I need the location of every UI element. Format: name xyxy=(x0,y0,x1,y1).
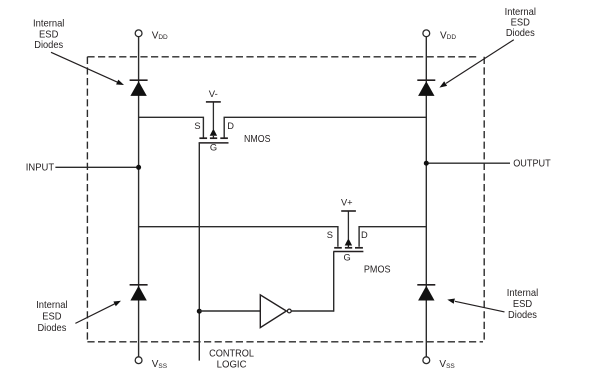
svg-text:Internal: Internal xyxy=(36,299,67,311)
wire: INPUT lead xyxy=(55,166,138,168)
svg-text:D: D xyxy=(227,121,234,131)
svg-text:G: G xyxy=(210,143,217,153)
arrow top-right xyxy=(439,40,513,88)
svg-text:NMOS: NMOS xyxy=(244,133,271,145)
wire: PMOS source from left rail xyxy=(139,227,338,247)
source contact tick xyxy=(199,137,207,139)
svg-text:INPUT: INPUT xyxy=(26,161,55,173)
svg-text:LOGIC: LOGIC xyxy=(217,359,247,371)
V- terminal bar xyxy=(206,101,221,103)
wire: right VDD/VSS rail xyxy=(425,37,427,357)
svg-text:PMOS: PMOS xyxy=(364,263,391,275)
ESD diode bottom-left xyxy=(130,285,148,301)
dashed IC boundary top edge xyxy=(87,56,478,58)
svg-text:D: D xyxy=(361,230,368,240)
annotation: Internal ESD Diodes top-right xyxy=(505,6,536,39)
terminal VSS right xyxy=(423,357,430,364)
source contact tick xyxy=(334,247,342,249)
drain contact tick xyxy=(220,137,228,139)
node: inverter input junction dot xyxy=(197,309,202,314)
svg-text:Diodes: Diodes xyxy=(506,27,535,39)
svg-text:S: S xyxy=(194,121,200,131)
gate plate xyxy=(333,251,363,253)
node: OUTPUT junction dot xyxy=(424,161,429,166)
bulk arrow xyxy=(210,129,217,136)
wire: PMOS drain to right rail xyxy=(359,227,426,247)
arrow bottom-left xyxy=(75,301,121,324)
wire: inverter input xyxy=(199,310,260,312)
terminal VDD left xyxy=(135,30,142,37)
gate plate xyxy=(199,142,229,144)
annotation: Internal ESD Diodes top-left xyxy=(33,18,64,52)
svg-text:S: S xyxy=(327,230,333,240)
transistor NMOS xyxy=(194,89,270,153)
node: INPUT junction dot xyxy=(136,165,141,170)
dashed IC boundary left edge xyxy=(86,57,88,342)
wire: NMOS drain to right rail xyxy=(224,117,426,137)
wire: PMOS gate xyxy=(333,252,335,312)
dashed IC boundary right edge xyxy=(483,57,485,342)
wire: NMOS source from left rail xyxy=(139,117,204,137)
svg-text:V-: V- xyxy=(209,89,218,100)
inverter U1 xyxy=(260,295,291,328)
ESD diode top-right xyxy=(417,80,435,96)
transistor PMOS xyxy=(327,198,391,276)
annotation: Internal ESD Diodes bottom-right xyxy=(507,287,538,321)
bulk contact tick xyxy=(345,247,352,249)
body lead to V- xyxy=(212,102,214,130)
arrow bottom-right xyxy=(447,299,504,312)
wire: left VDD/VSS rail xyxy=(138,37,140,357)
bulk arrow xyxy=(345,238,352,245)
svg-text:Diodes: Diodes xyxy=(34,39,63,51)
arrow top-left xyxy=(51,52,124,85)
V+ terminal bar xyxy=(341,210,356,212)
body lead to V+ xyxy=(347,211,349,239)
terminal VDD right xyxy=(423,30,430,37)
wire: NMOS gate / control line xyxy=(198,143,200,361)
svg-text:G: G xyxy=(343,252,350,262)
terminal VSS left xyxy=(135,357,142,364)
wire: inverter output xyxy=(291,310,333,312)
svg-text:ESD: ESD xyxy=(42,311,62,323)
svg-text:Diodes: Diodes xyxy=(37,322,66,334)
ESD diode bottom-right xyxy=(417,285,435,301)
svg-text:Diodes: Diodes xyxy=(508,309,537,321)
annotation: Internal ESD Diodes bottom-left xyxy=(36,299,67,334)
drain contact tick xyxy=(355,247,363,249)
dashed IC boundary bottom edge xyxy=(87,341,483,343)
svg-text:OUTPUT: OUTPUT xyxy=(513,157,551,169)
bulk contact tick xyxy=(210,137,217,139)
svg-text:V+: V+ xyxy=(341,198,353,208)
ESD diode top-left xyxy=(130,80,148,96)
wire: OUTPUT lead xyxy=(426,162,510,164)
